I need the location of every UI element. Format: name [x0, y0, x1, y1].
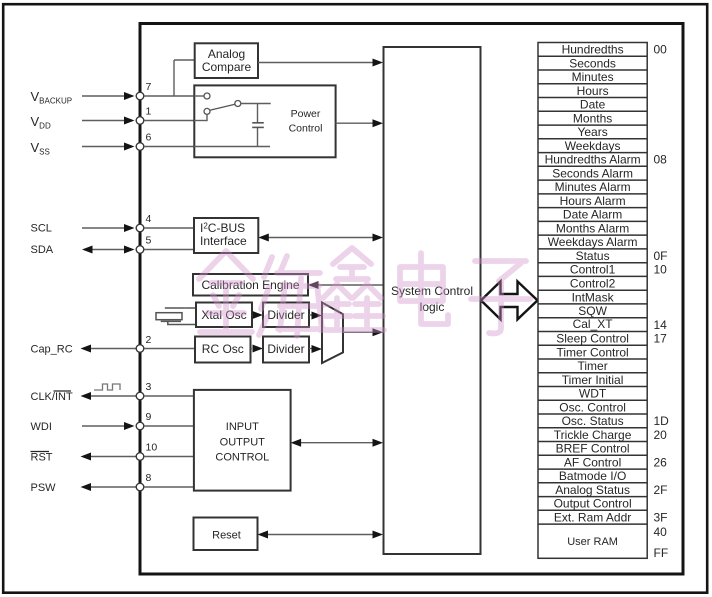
wire VDD internal [144, 120, 207, 122]
svg-text:00: 00 [654, 43, 668, 57]
svg-text:WDT: WDT [579, 387, 607, 401]
wire Cap_RC internal to RC osc [144, 348, 195, 350]
svg-text:Timer Control: Timer Control [556, 345, 628, 359]
block rc osc [195, 337, 251, 363]
svg-text:Analog Status: Analog Status [555, 483, 630, 497]
svg-text:IntMask: IntMask [572, 290, 615, 304]
svg-text:Sleep Control: Sleep Control [556, 332, 629, 346]
wire IOC to system control bidirectional [301, 442, 374, 444]
capacitor C1 stem top [257, 104, 259, 123]
svg-text:1: 1 [146, 106, 152, 118]
pin 6 circle [136, 143, 144, 151]
wire reset to system control bidirectional [268, 534, 374, 536]
svg-text:14: 14 [654, 318, 668, 332]
wire RST external [91, 456, 136, 458]
svg-text:CONTROL: CONTROL [215, 452, 269, 464]
svg-text:Control1: Control1 [570, 263, 616, 277]
block power control [194, 85, 335, 157]
svg-text:Minutes: Minutes [572, 70, 614, 84]
svg-text:AF Control: AF Control [564, 455, 621, 469]
svg-text:Months: Months [573, 111, 612, 125]
svg-text:OUTPUT: OUTPUT [220, 437, 266, 449]
svg-text:Timer: Timer [577, 359, 607, 373]
fat bidirectional bus arrow [481, 281, 538, 319]
svg-text:20: 20 [654, 428, 668, 442]
svg-text:Osc. Status: Osc. Status [562, 414, 624, 428]
svg-text:40: 40 [654, 525, 668, 539]
clock mux [322, 303, 343, 364]
svg-text:Interface: Interface [200, 234, 247, 248]
svg-text:Reset: Reset [212, 530, 241, 542]
wire PSW external [91, 486, 136, 488]
svg-text:Divider: Divider [267, 342, 304, 356]
pin 7 circle [136, 92, 144, 100]
pin 8 circle [136, 483, 144, 491]
capacitor C1 stem bottom [257, 128, 259, 147]
block divider 2 [263, 337, 309, 363]
wire VSS external [82, 146, 125, 148]
pin 2 circle [136, 345, 144, 353]
wire VSS inside power control [194, 146, 270, 148]
block xtal osc [196, 303, 252, 328]
svg-text:Months Alarm: Months Alarm [556, 222, 629, 236]
svg-text:Seconds Alarm: Seconds Alarm [552, 166, 633, 180]
svg-text:User RAM: User RAM [567, 536, 618, 548]
wire PSW internal [144, 486, 194, 488]
svg-text:PSW: PSW [31, 482, 57, 494]
svg-text:Years: Years [577, 125, 607, 139]
svg-text:Output Control: Output Control [554, 497, 632, 511]
pin 10 circle [136, 453, 144, 461]
wire system control to calibration engine [319, 284, 384, 286]
block calibration engine [193, 274, 308, 296]
svg-text:6: 6 [146, 132, 152, 144]
svg-text:Hundredths Alarm: Hundredths Alarm [545, 153, 641, 167]
svg-text:17: 17 [654, 332, 668, 346]
wire SCL external [82, 227, 125, 229]
svg-text:Ext. Ram Addr: Ext. Ram Addr [554, 510, 631, 524]
pin 9 circle [136, 422, 144, 430]
pin 1 circle [136, 117, 144, 125]
power switch contact VDD [204, 108, 210, 114]
svg-text:08: 08 [654, 153, 668, 167]
wire WDI internal [144, 425, 194, 427]
block analog compare [195, 43, 258, 78]
svg-text:INPUT: INPUT [226, 421, 259, 433]
pin 4 circle [136, 224, 144, 232]
capacitor C1 plates [252, 122, 264, 124]
wire mux to system control [343, 331, 374, 333]
svg-text:Cap_RC: Cap_RC [31, 344, 73, 356]
wire WDI external [82, 425, 125, 427]
svg-text:Compare: Compare [202, 60, 252, 74]
wire analog compare to system control [258, 62, 374, 64]
wire VDD inside power control [194, 120, 207, 122]
svg-text:9: 9 [146, 411, 152, 423]
svg-text:10: 10 [146, 442, 158, 454]
clock waveform symbol [94, 384, 120, 390]
svg-text:1D: 1D [654, 414, 670, 428]
watermark chinese text [199, 248, 530, 336]
wire switch common to rail [241, 103, 271, 105]
svg-text:Status: Status [576, 249, 610, 263]
pin 3 circle [136, 392, 144, 400]
wire divider2 to mux [309, 348, 312, 350]
svg-text:4: 4 [146, 213, 152, 225]
svg-text:FF: FF [654, 546, 669, 560]
svg-text:Osc. Control: Osc. Control [559, 400, 626, 414]
svg-text:Power: Power [291, 108, 321, 120]
svg-text:Weekdays: Weekdays [565, 139, 621, 153]
wire VSS internal [144, 146, 270, 148]
svg-text:SDA: SDA [31, 244, 54, 256]
block input output control [194, 390, 291, 491]
svg-text:Hundredths: Hundredths [562, 43, 624, 57]
wire branch to analog compare [173, 60, 175, 96]
wire SCL internal [144, 227, 194, 229]
wire rc osc to divider [251, 348, 253, 350]
block divider 1 [263, 303, 309, 328]
wire SDA internal [144, 249, 194, 251]
svg-text:26: 26 [654, 455, 668, 469]
svg-text:Control: Control [289, 123, 323, 135]
svg-text:3F: 3F [654, 510, 668, 524]
svg-text:BREF Control: BREF Control [556, 442, 630, 456]
wire xtal osc to divider [252, 314, 254, 316]
svg-text:5: 5 [146, 235, 152, 247]
wire SDA external bidirectional [92, 249, 125, 251]
block I2C bus interface [194, 218, 258, 253]
svg-text:Trickle Charge: Trickle Charge [554, 428, 632, 442]
svg-text:Batmode I/O: Batmode I/O [559, 469, 626, 483]
wire VDD external [82, 120, 125, 122]
svg-text:Timer Initial: Timer Initial [562, 373, 624, 387]
svg-text:2F: 2F [654, 483, 668, 497]
block reset [194, 518, 258, 551]
svg-text:3: 3 [146, 381, 152, 393]
svg-text:Hours Alarm: Hours Alarm [560, 194, 626, 208]
svg-text:Minutes Alarm: Minutes Alarm [555, 180, 631, 194]
wire RST internal [144, 456, 194, 458]
svg-text:2: 2 [146, 334, 152, 346]
pin 5 circle [136, 246, 144, 254]
svg-text:WDI: WDI [31, 421, 52, 433]
wire power control output to system control [336, 122, 374, 124]
svg-text:Weekdays Alarm: Weekdays Alarm [548, 235, 638, 249]
svg-text:Control2: Control2 [570, 277, 616, 291]
crystal X1 [156, 308, 196, 325]
svg-text:Date: Date [580, 98, 606, 112]
svg-text:Cal_XT: Cal_XT [573, 317, 614, 331]
wire CLK/INT external [91, 395, 136, 397]
block system control logic [384, 47, 481, 554]
svg-text:10: 10 [654, 263, 668, 277]
wire CLK/INT internal [144, 395, 194, 397]
svg-text:8: 8 [146, 472, 152, 484]
svg-text:Date Alarm: Date Alarm [563, 208, 622, 222]
svg-text:RC Osc: RC Osc [202, 342, 244, 356]
wire VBACKUP external [82, 95, 125, 97]
power switch common contact [235, 101, 241, 107]
svg-text:SCL: SCL [31, 223, 52, 235]
svg-text:0F: 0F [654, 249, 668, 263]
svg-text:RST: RST [31, 452, 53, 464]
wire divider1 to mux [309, 314, 312, 316]
wire I2C to system control bidirectional [269, 237, 374, 239]
wire Cap_RC external [91, 348, 136, 350]
power switch contact VBACKUP [204, 93, 210, 99]
svg-text:Hours: Hours [577, 84, 609, 98]
svg-text:CLK/INT: CLK/INT [31, 391, 73, 403]
svg-text:7: 7 [146, 81, 152, 93]
register file table [538, 43, 647, 559]
wire VBACKUP internal to power switch [144, 95, 204, 97]
svg-text:Seconds: Seconds [569, 56, 616, 70]
svg-text:Analog: Analog [208, 47, 245, 61]
chip boundary rectangle [140, 24, 683, 575]
power switch lever [210, 104, 235, 110]
wire VBACKUP inside power control [194, 95, 204, 97]
